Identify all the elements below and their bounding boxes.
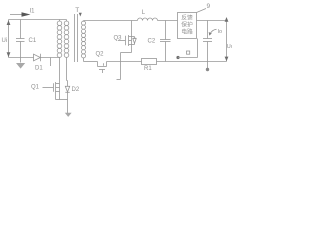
- svg-text:R1: R1: [144, 66, 152, 72]
- svg-text:C2: C2: [148, 39, 156, 45]
- svg-text:Ui: Ui: [2, 38, 8, 44]
- svg-text:D1: D1: [35, 66, 43, 72]
- svg-text:Q3: Q3: [114, 36, 123, 42]
- svg-text:9: 9: [207, 3, 211, 10]
- svg-text:L: L: [142, 10, 146, 16]
- svg-text:Io: Io: [218, 29, 223, 35]
- svg-text:电路: 电路: [181, 28, 193, 36]
- svg-text:Q2: Q2: [96, 52, 105, 58]
- svg-text:D2: D2: [72, 87, 80, 93]
- svg-text:保护: 保护: [181, 21, 193, 29]
- svg-text:Q1: Q1: [31, 85, 40, 91]
- svg-text:反馈: 反馈: [181, 14, 193, 22]
- svg-text:Uo: Uo: [227, 44, 232, 50]
- svg-text:C1: C1: [29, 38, 37, 44]
- svg-text:I1: I1: [30, 9, 36, 15]
- svg-text:T: T: [75, 7, 79, 14]
